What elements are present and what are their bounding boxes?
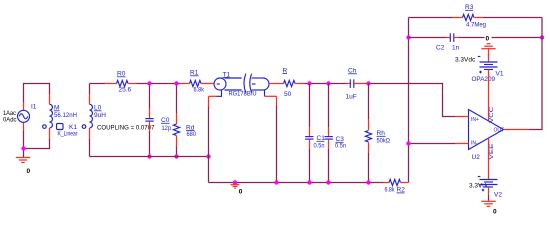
node dot [206, 154, 210, 158]
svg-text:50kΩ: 50kΩ [377, 137, 391, 144]
ground 0 (middle) [231, 184, 240, 186]
svg-text:0: 0 [493, 209, 497, 216]
node dot [366, 81, 370, 85]
svg-text:0.5n: 0.5n [335, 142, 346, 149]
svg-text:0: 0 [486, 35, 490, 42]
svg-text:12p: 12p [162, 125, 172, 132]
svg-text:OPA209: OPA209 [472, 76, 496, 83]
current source I1 [23, 102, 25, 110]
transmission line T1 [214, 71, 284, 97]
svg-text:3.3Vdc: 3.3Vdc [455, 57, 476, 64]
svg-text:VEE: VEE [489, 142, 495, 159]
node dot [174, 154, 178, 158]
resistor R0 [105, 83, 116, 85]
inductor M [49, 94, 51, 104]
svg-text:6.8k: 6.8k [194, 87, 205, 94]
wire C2 row [409, 37, 446, 39]
svg-text:1n: 1n [452, 45, 460, 52]
node dot [326, 81, 330, 85]
resistor R 50 [284, 80, 295, 86]
svg-text:0: 0 [239, 189, 243, 196]
capacitor C0 [149, 84, 151, 109]
capacitor C1 [309, 84, 311, 128]
svg-text:OUT: OUT [494, 127, 505, 133]
wire VEE to V2 [488, 138, 490, 179]
svg-text:0.5n: 0.5n [314, 142, 325, 149]
wire vertical to ground rail [209, 95, 217, 97]
coupling K1 K_Linear [57, 124, 64, 130]
capacitor Ch [346, 83, 351, 85]
node dot [326, 180, 330, 184]
svg-text:0Adc: 0Adc [3, 117, 17, 124]
resistor Rd [176, 84, 178, 114]
wire ground rail [209, 182, 384, 184]
wire top rail [90, 83, 106, 85]
svg-text:680: 680 [187, 131, 197, 138]
node dot [366, 180, 370, 184]
node dot [307, 180, 311, 184]
wire output column [529, 18, 542, 130]
node dot [406, 35, 410, 39]
resistor R3 [453, 17, 463, 19]
svg-text:IN-: IN- [471, 141, 478, 147]
node dot [174, 81, 178, 85]
svg-text:25.6: 25.6 [119, 87, 132, 94]
svg-text:3.3Vdc: 3.3Vdc [469, 183, 490, 190]
op-amp U2 [469, 110, 504, 150]
wire V1 to VCC [488, 70, 490, 121]
ground 0 (top, inverted) above V1 [485, 31, 492, 42]
svg-text:4.7Meg: 4.7Meg [466, 22, 486, 29]
resistor Rh [368, 84, 370, 120]
wire [136, 83, 179, 85]
node dot [406, 141, 410, 145]
resistor R2 [383, 182, 389, 184]
svg-text:I1: I1 [31, 104, 37, 111]
wire left loop [24, 84, 50, 103]
svg-text:C2: C2 [436, 45, 445, 52]
node dot [307, 81, 311, 85]
wire to op-amp [366, 84, 455, 117]
svg-text:COUPLING = 0.0707: COUPLING = 0.0707 [97, 125, 155, 132]
svg-text:50: 50 [284, 91, 292, 98]
svg-text:RG178B/U: RG178B/U [229, 90, 257, 97]
wire T1 shield right [265, 95, 277, 97]
wire top feedback row [409, 17, 453, 19]
svg-text:U2: U2 [472, 154, 481, 161]
svg-text:K_Linear: K_Linear [58, 130, 79, 137]
svg-text:VCC: VCC [489, 106, 495, 123]
node dot [274, 180, 278, 184]
svg-text:IN+: IN+ [471, 117, 479, 123]
wire feedback column [408, 18, 410, 183]
svg-text:1uF: 1uF [346, 93, 357, 100]
wire IN- [409, 143, 456, 145]
svg-text:0: 0 [27, 168, 31, 175]
ground 0 (left) [23, 149, 25, 158]
inductor L0 [89, 84, 91, 95]
ground 0 (bottom right) [488, 187, 490, 195]
wire bottom rail left [90, 156, 209, 158]
capacitor C3 [328, 84, 330, 128]
svg-text:6.8k: 6.8k [385, 187, 396, 194]
svg-text:56.12nH: 56.12nH [54, 112, 77, 119]
node dot [147, 81, 151, 85]
svg-text:9uH: 9uH [94, 112, 106, 119]
svg-text:V2: V2 [494, 192, 502, 199]
node dot [147, 154, 151, 158]
svg-text:V1: V1 [496, 71, 504, 78]
wire left loop bottom [24, 131, 50, 149]
wire [305, 83, 346, 85]
node dot [540, 35, 544, 39]
capacitor C2 [446, 37, 451, 39]
resistor R1 [180, 83, 190, 85]
